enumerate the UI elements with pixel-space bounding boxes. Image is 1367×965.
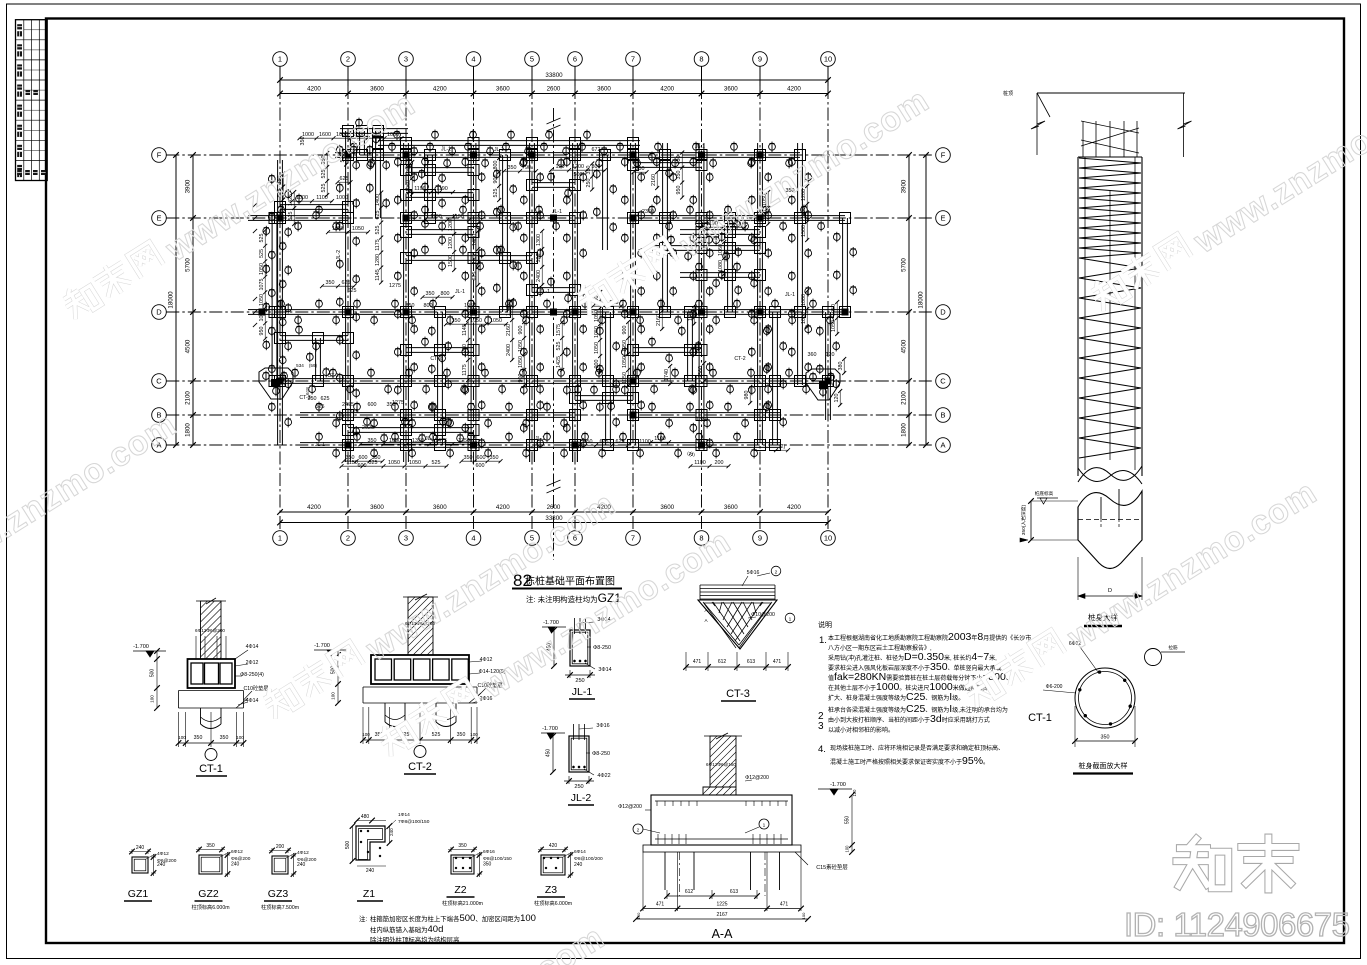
detail Z3: dimensions	[540, 847, 542, 852]
svg-text:7: 7	[631, 55, 635, 64]
svg-text:350: 350	[220, 735, 229, 741]
svg-text:2560: 2560	[698, 366, 704, 378]
svg-text:4500: 4500	[185, 339, 192, 353]
svg-text:525: 525	[259, 249, 265, 258]
svg-text:1: 1	[789, 617, 792, 623]
pile bulb (enlarged toe)	[1078, 491, 1142, 569]
detail GZ3: dimensions	[271, 848, 273, 853]
svg-text:800: 800	[424, 303, 433, 309]
svg-text:3900: 3900	[185, 179, 192, 193]
svg-text:525: 525	[375, 226, 381, 235]
svg-text:240: 240	[136, 845, 145, 851]
svg-text:1050: 1050	[409, 460, 421, 466]
svg-text:GZ2: GZ2	[198, 888, 219, 900]
svg-text:120: 120	[834, 394, 840, 403]
pile elevation left extension with break	[1036, 93, 1038, 155]
top dimension line overall 33800	[280, 79, 828, 81]
svg-text:1225: 1225	[716, 902, 727, 908]
svg-text:1050: 1050	[388, 460, 400, 466]
svg-text:3600: 3600	[597, 86, 611, 93]
svg-text:(2): (2)	[687, 451, 693, 456]
svg-text:6Φ14: 6Φ14	[574, 849, 586, 855]
svg-text:480: 480	[361, 814, 370, 820]
svg-text:注:: 注:	[359, 914, 367, 923]
svg-text:350: 350	[458, 843, 467, 849]
pile elevation right extension with break	[1183, 93, 1185, 157]
svg-text:2160: 2160	[656, 314, 662, 326]
svg-text:F: F	[157, 151, 162, 160]
svg-text:471: 471	[693, 659, 702, 665]
svg-text:3600: 3600	[660, 504, 674, 511]
svg-text:2160: 2160	[651, 174, 657, 186]
svg-text:1060: 1060	[406, 180, 412, 192]
svg-text:534: 534	[296, 363, 304, 368]
centre axis line with break marks	[553, 108, 555, 560]
horizontal grid lines dash-dot	[166, 154, 934, 156]
pile bulb socket lines	[1100, 497, 1102, 519]
svg-text:4Φ12: 4Φ12	[297, 850, 309, 856]
svg-text:1: 1	[278, 534, 282, 543]
svg-text:JL-1: JL-1	[572, 686, 593, 698]
svg-text:D: D	[156, 308, 162, 317]
ground beam network horizontal members	[335, 152, 800, 154]
svg-text:1000: 1000	[336, 195, 348, 201]
svg-text:说明: 说明	[818, 620, 832, 629]
svg-text:350: 350	[676, 171, 682, 180]
svg-text:980: 980	[744, 391, 750, 400]
svg-text:100: 100	[801, 912, 806, 919]
svg-text:900: 900	[518, 326, 524, 335]
svg-text:3600: 3600	[370, 86, 384, 93]
svg-text:1800: 1800	[185, 423, 192, 437]
svg-text:525: 525	[432, 460, 441, 466]
svg-text:C10砼垫层: C10砼垫层	[243, 684, 268, 692]
svg-text:240: 240	[574, 862, 583, 868]
detail CT-2: piles below cap	[384, 703, 386, 722]
svg-text:360: 360	[808, 352, 817, 358]
svg-text:A: A	[940, 441, 945, 450]
detail Z2: column section	[451, 855, 474, 874]
detail A-A: levelling slab	[643, 845, 801, 852]
detail CT-2: column break line	[403, 596, 438, 598]
svg-text:JL-2: JL-2	[336, 250, 342, 260]
svg-text:CT-1: CT-1	[199, 763, 223, 775]
title block table (left margin)	[16, 20, 48, 181]
svg-text:4Φ14: 4Φ14	[246, 698, 259, 704]
svg-text:100: 100	[150, 695, 155, 703]
pile cap CT-3 right (pentagon)	[806, 369, 840, 400]
detail CT-2: levelling slab	[363, 686, 477, 688]
svg-text:Φ8-250: Φ8-250	[593, 645, 611, 651]
svg-text:1350: 1350	[458, 438, 470, 444]
svg-text:1.: 1.	[819, 635, 827, 646]
svg-text:2600: 2600	[547, 504, 561, 511]
svg-text:350: 350	[584, 439, 593, 445]
svg-text:JL-1: JL-1	[552, 209, 562, 215]
svg-text:613: 613	[747, 659, 756, 665]
svg-text:1500: 1500	[801, 225, 807, 237]
detail CT-2: pile count circle	[414, 746, 426, 758]
svg-text:Φ6@200: Φ6@200	[231, 856, 251, 862]
svg-text:JL-1: JL-1	[441, 147, 451, 153]
svg-text:350: 350	[464, 455, 473, 461]
svg-text:1145: 1145	[375, 269, 381, 281]
svg-text:拉筋: 拉筋	[1168, 644, 1178, 651]
svg-text:900: 900	[622, 326, 628, 335]
svg-text:Φ8-250(4): Φ8-250(4)	[240, 672, 264, 678]
detail A-A: pile spacing dims	[666, 890, 668, 899]
svg-text:4200: 4200	[307, 504, 321, 511]
svg-text:4200: 4200	[496, 504, 510, 511]
svg-text:CT-3: CT-3	[299, 395, 310, 401]
svg-text:350: 350	[483, 862, 492, 868]
svg-text:6Φ12: 6Φ12	[231, 849, 243, 855]
svg-text:1050: 1050	[831, 320, 837, 332]
svg-text:1200: 1200	[572, 164, 584, 170]
svg-text:桩顶: 桩顶	[1003, 90, 1013, 97]
svg-text:1050: 1050	[801, 312, 807, 324]
svg-text:350: 350	[346, 455, 355, 461]
svg-text:3Φ14: 3Φ14	[598, 667, 611, 673]
detail CT-2: column with hatch	[408, 597, 433, 655]
svg-text:350: 350	[636, 166, 645, 172]
svg-text:350: 350	[1101, 735, 1110, 741]
svg-text:90: 90	[525, 165, 531, 171]
svg-text:1050: 1050	[389, 438, 401, 444]
svg-text:Z3: Z3	[545, 884, 557, 896]
svg-text:2167: 2167	[716, 912, 727, 918]
svg-text:1000: 1000	[296, 195, 308, 201]
svg-text:柱顶标高6.000m: 柱顶标高6.000m	[191, 903, 229, 911]
svg-text:672: 672	[592, 147, 601, 153]
detail CT-3: dimensions	[685, 652, 687, 671]
svg-text:350: 350	[300, 137, 306, 146]
svg-text:100: 100	[845, 845, 850, 853]
pile spiral reinforcement sparse zone	[1079, 258, 1141, 268]
svg-text:GZ3: GZ3	[268, 888, 289, 900]
svg-text:1050: 1050	[490, 318, 502, 324]
pile section CT-1 circle detail	[1075, 668, 1135, 728]
svg-text:4.: 4.	[818, 744, 826, 755]
svg-text:525: 525	[316, 404, 325, 410]
svg-text:1400: 1400	[472, 234, 478, 246]
detail CT-1: pile cap	[188, 659, 236, 688]
svg-text:625: 625	[600, 439, 609, 445]
svg-text:350: 350	[586, 166, 592, 175]
svg-text:613: 613	[730, 889, 739, 895]
svg-text:600: 600	[477, 455, 486, 461]
svg-text:JL-1: JL-1	[540, 289, 550, 295]
svg-text:-1.700: -1.700	[314, 643, 330, 649]
svg-text:1080: 1080	[718, 260, 724, 272]
svg-text:100: 100	[470, 732, 478, 737]
svg-text:1175: 1175	[375, 239, 381, 251]
svg-text:6Φ16: 6Φ16	[483, 849, 495, 855]
detail CT-1: pile below cap	[200, 708, 202, 724]
big znzmo watermark bottom right	[1176, 838, 1295, 890]
detail CT-1: levelling slab	[179, 690, 244, 692]
svg-text:4200: 4200	[307, 86, 321, 93]
svg-text:1100: 1100	[654, 436, 666, 442]
svg-text:C15素砼垫层: C15素砼垫层	[816, 863, 848, 871]
filled node squares	[345, 152, 352, 159]
detail CT-1: dimensions	[178, 712, 180, 747]
column grid axis bubbles top row	[273, 52, 288, 67]
svg-text:1190: 1190	[436, 186, 448, 192]
svg-text:1575: 1575	[556, 324, 562, 336]
svg-text:JL-1: JL-1	[315, 442, 325, 448]
svg-text:1425: 1425	[556, 356, 562, 368]
svg-text:CT-2: CT-2	[408, 761, 432, 773]
svg-text:3Φ16: 3Φ16	[596, 723, 609, 729]
svg-text:350: 350	[406, 303, 415, 309]
svg-text:1050: 1050	[831, 304, 837, 316]
svg-text:以减小对相邻桩的影响。: 以减小对相邻桩的影响。	[828, 726, 894, 734]
detail GZ2: column section	[199, 855, 222, 874]
detail GZ2: dimensions	[198, 847, 200, 852]
svg-text:4Φ12: 4Φ12	[480, 657, 493, 663]
svg-text:950: 950	[259, 327, 265, 336]
svg-text:4200: 4200	[787, 86, 801, 93]
svg-text:1080: 1080	[801, 294, 807, 306]
svg-text:420: 420	[549, 843, 558, 849]
row grid axis bubbles left column	[152, 148, 167, 163]
svg-text:120: 120	[826, 352, 835, 358]
svg-text:桩身截面放大样: 桩身截面放大样	[1079, 761, 1128, 770]
svg-text:1190: 1190	[430, 214, 442, 220]
svg-text:GZ1: GZ1	[128, 888, 149, 900]
svg-text:-1.700: -1.700	[830, 782, 846, 788]
svg-text:250: 250	[586, 179, 592, 188]
detail CT-2: pile cap	[371, 655, 469, 684]
svg-text:1: 1	[763, 823, 766, 829]
svg-text:800: 800	[493, 161, 499, 170]
svg-text:C: C	[156, 377, 162, 386]
svg-text:JL-1: JL-1	[785, 292, 795, 298]
svg-text:625: 625	[348, 288, 357, 294]
svg-text:B: B	[940, 411, 945, 420]
svg-text:6: 6	[573, 55, 577, 64]
svg-text:7: 7	[631, 534, 635, 543]
svg-text:350: 350	[490, 455, 499, 461]
svg-text:300: 300	[592, 164, 601, 170]
svg-text:9: 9	[758, 534, 762, 543]
svg-text:1050: 1050	[259, 294, 265, 306]
svg-text:471: 471	[773, 659, 782, 665]
svg-text:612: 612	[685, 889, 694, 895]
top dimension line bays	[280, 93, 828, 95]
svg-text:ID: 1124906675: ID: 1124906675	[1124, 906, 1349, 943]
pile rebar cage above cutoff	[1082, 121, 1084, 157]
svg-text:100: 100	[178, 735, 186, 740]
svg-text:Φ8@100/150: Φ8@100/150	[483, 856, 512, 862]
svg-text:380: 380	[838, 362, 844, 371]
svg-text:350: 350	[368, 438, 377, 444]
detail CT-3: triangular cap outline	[698, 600, 777, 649]
svg-text:500: 500	[345, 841, 351, 850]
svg-text:100: 100	[636, 912, 641, 919]
svg-text:1050: 1050	[594, 342, 600, 354]
svg-text:900: 900	[518, 374, 524, 383]
svg-text:4200: 4200	[787, 504, 801, 511]
svg-text:240: 240	[231, 862, 240, 868]
svg-text:350: 350	[194, 735, 203, 741]
svg-text:D: D	[940, 308, 946, 317]
svg-text:1380: 1380	[696, 417, 708, 423]
svg-text:Φ6-200: Φ6-200	[1046, 684, 1063, 690]
detail CT-1: pile count circle	[205, 749, 217, 761]
svg-text:33800: 33800	[545, 72, 563, 79]
svg-text:(2): (2)	[779, 444, 786, 450]
svg-text:C: C	[940, 377, 946, 386]
svg-text:350: 350	[426, 291, 435, 297]
svg-text:900: 900	[594, 360, 600, 369]
svg-text:2600: 2600	[547, 86, 561, 93]
svg-text:柱顶标高21.000m: 柱顶标高21.000m	[442, 899, 483, 907]
svg-text:Z2: Z2	[454, 884, 466, 896]
svg-text:3: 3	[404, 55, 408, 64]
svg-text:1200: 1200	[448, 237, 454, 249]
svg-text:625: 625	[472, 272, 478, 281]
svg-text:2Φ12: 2Φ12	[246, 660, 259, 666]
svg-text:JL-1: JL-1	[535, 436, 545, 442]
beam stubs left of rows E and D	[248, 215, 262, 217]
svg-text:2: 2	[346, 534, 350, 543]
svg-text:3600: 3600	[724, 86, 738, 93]
svg-text:525: 525	[259, 234, 265, 243]
svg-text:CT-3: CT-3	[726, 688, 750, 700]
bottom dimension line bays	[280, 511, 828, 513]
detail CT-1: left dims	[156, 651, 158, 708]
svg-text:800: 800	[441, 291, 450, 297]
svg-text:750: 750	[676, 156, 682, 165]
pile cap squares at beam intersections	[269, 213, 280, 224]
svg-text:1050: 1050	[518, 340, 524, 352]
detail GZ3: column section	[272, 856, 288, 874]
svg-text:350: 350	[326, 280, 335, 286]
detail Z1: L-shaped column section	[356, 826, 385, 860]
svg-text:18000: 18000	[168, 291, 175, 309]
svg-text:2475: 2475	[342, 402, 354, 408]
svg-text:3600: 3600	[496, 86, 510, 93]
svg-text:Φ12@200: Φ12@200	[745, 775, 769, 781]
svg-text:1050: 1050	[622, 356, 628, 368]
svg-text:4200: 4200	[433, 86, 447, 93]
svg-text:1475: 1475	[435, 438, 447, 444]
svg-text:600: 600	[476, 463, 485, 469]
detail GZ1: column section	[132, 857, 148, 873]
svg-text:7Φ8@100/150: 7Φ8@100/150	[398, 819, 430, 825]
vertical grid lines dash-dot	[279, 66, 281, 86]
svg-text:350: 350	[452, 318, 461, 324]
svg-text:350: 350	[387, 402, 396, 408]
svg-text:2025: 2025	[362, 425, 374, 431]
svg-text:120: 120	[852, 789, 857, 797]
svg-text:200: 200	[715, 460, 724, 466]
svg-text:1050: 1050	[518, 356, 524, 368]
svg-text:-1.700: -1.700	[542, 726, 558, 732]
svg-text:(59): (59)	[309, 363, 318, 368]
svg-text:250: 250	[574, 784, 583, 790]
svg-text:2: 2	[346, 55, 350, 64]
svg-text:1050: 1050	[464, 303, 476, 309]
svg-text:612: 612	[718, 659, 727, 665]
svg-text:625: 625	[616, 439, 625, 445]
svg-text:600: 600	[359, 455, 368, 461]
svg-text:2360: 2360	[642, 209, 654, 215]
svg-text:2160: 2160	[506, 324, 512, 336]
svg-text:1500: 1500	[448, 255, 454, 267]
svg-text:4: 4	[471, 534, 475, 543]
svg-text:350(入岩深度): 350(入岩深度)	[1020, 504, 1027, 535]
detail A-A: bubble callouts	[633, 824, 643, 834]
svg-text:350: 350	[457, 732, 466, 738]
svg-text:618: 618	[305, 387, 310, 395]
svg-text:471: 471	[656, 902, 665, 908]
left dimension line bays	[192, 155, 194, 445]
svg-text:-1.700: -1.700	[133, 644, 149, 650]
svg-text:现场接桩施工时、应将环境相记录是否满足要求和确定桩顶标高、: 现场接桩施工时、应将环境相记录是否满足要求和确定桩顶标高、	[830, 744, 1004, 752]
svg-text:2: 2	[637, 828, 640, 834]
svg-text:4: 4	[471, 55, 475, 64]
svg-text:Φ6@200: Φ6@200	[297, 857, 317, 863]
svg-text:625: 625	[375, 211, 381, 220]
svg-text:CT-2: CT-2	[734, 356, 745, 362]
svg-text:Φ8@100/200: Φ8@100/200	[574, 856, 603, 862]
svg-text:1450: 1450	[472, 252, 478, 264]
svg-text:栋桩基础平面布置图: 栋桩基础平面布置图	[525, 575, 615, 588]
detail JL-2: beam section	[569, 736, 589, 772]
svg-text:525: 525	[288, 212, 294, 221]
svg-text:3600: 3600	[724, 504, 738, 511]
detail A-A: piles below	[664, 852, 666, 890]
svg-text:500: 500	[150, 669, 156, 678]
svg-text:1575: 1575	[506, 304, 512, 316]
svg-text:2100: 2100	[185, 391, 192, 405]
svg-text:2400: 2400	[536, 270, 542, 282]
svg-text:1050: 1050	[594, 326, 600, 338]
pile spiral reinforcement dense zone	[1079, 158, 1141, 163]
right dimension line bays	[908, 155, 910, 445]
ground beam network vertical members	[271, 212, 273, 385]
detail A-A: column break and hatch	[704, 735, 742, 737]
svg-text:JL-2: JL-2	[571, 792, 592, 804]
svg-text:1800: 1800	[901, 423, 908, 437]
row grid axis bubbles right column	[936, 148, 951, 163]
svg-text:240: 240	[389, 828, 394, 836]
svg-text:3900: 3900	[901, 179, 908, 193]
detail JL-1: dimensions	[569, 670, 571, 678]
svg-text:3: 3	[818, 721, 824, 732]
svg-text:1200: 1200	[801, 207, 807, 219]
svg-text:1050: 1050	[594, 310, 600, 322]
svg-text:4Φ12: 4Φ12	[157, 851, 169, 857]
pile shaft walls	[1077, 157, 1079, 476]
svg-text:525: 525	[350, 409, 359, 415]
svg-text:350: 350	[372, 455, 381, 461]
left dimension line overall 18000	[175, 155, 177, 445]
svg-text:200: 200	[276, 844, 285, 850]
svg-text:5700: 5700	[901, 258, 908, 272]
svg-text:500: 500	[574, 172, 583, 178]
svg-text:1075: 1075	[259, 279, 265, 291]
svg-text:除注明外柱顶标高均为结构层高: 除注明外柱顶标高均为结构层高	[370, 935, 459, 944]
svg-text:2: 2	[775, 570, 778, 576]
detail Z3: column section	[541, 855, 565, 875]
svg-text:JL-1: JL-1	[494, 147, 504, 153]
svg-text:1275: 1275	[389, 283, 401, 289]
svg-text:1050: 1050	[332, 226, 344, 232]
